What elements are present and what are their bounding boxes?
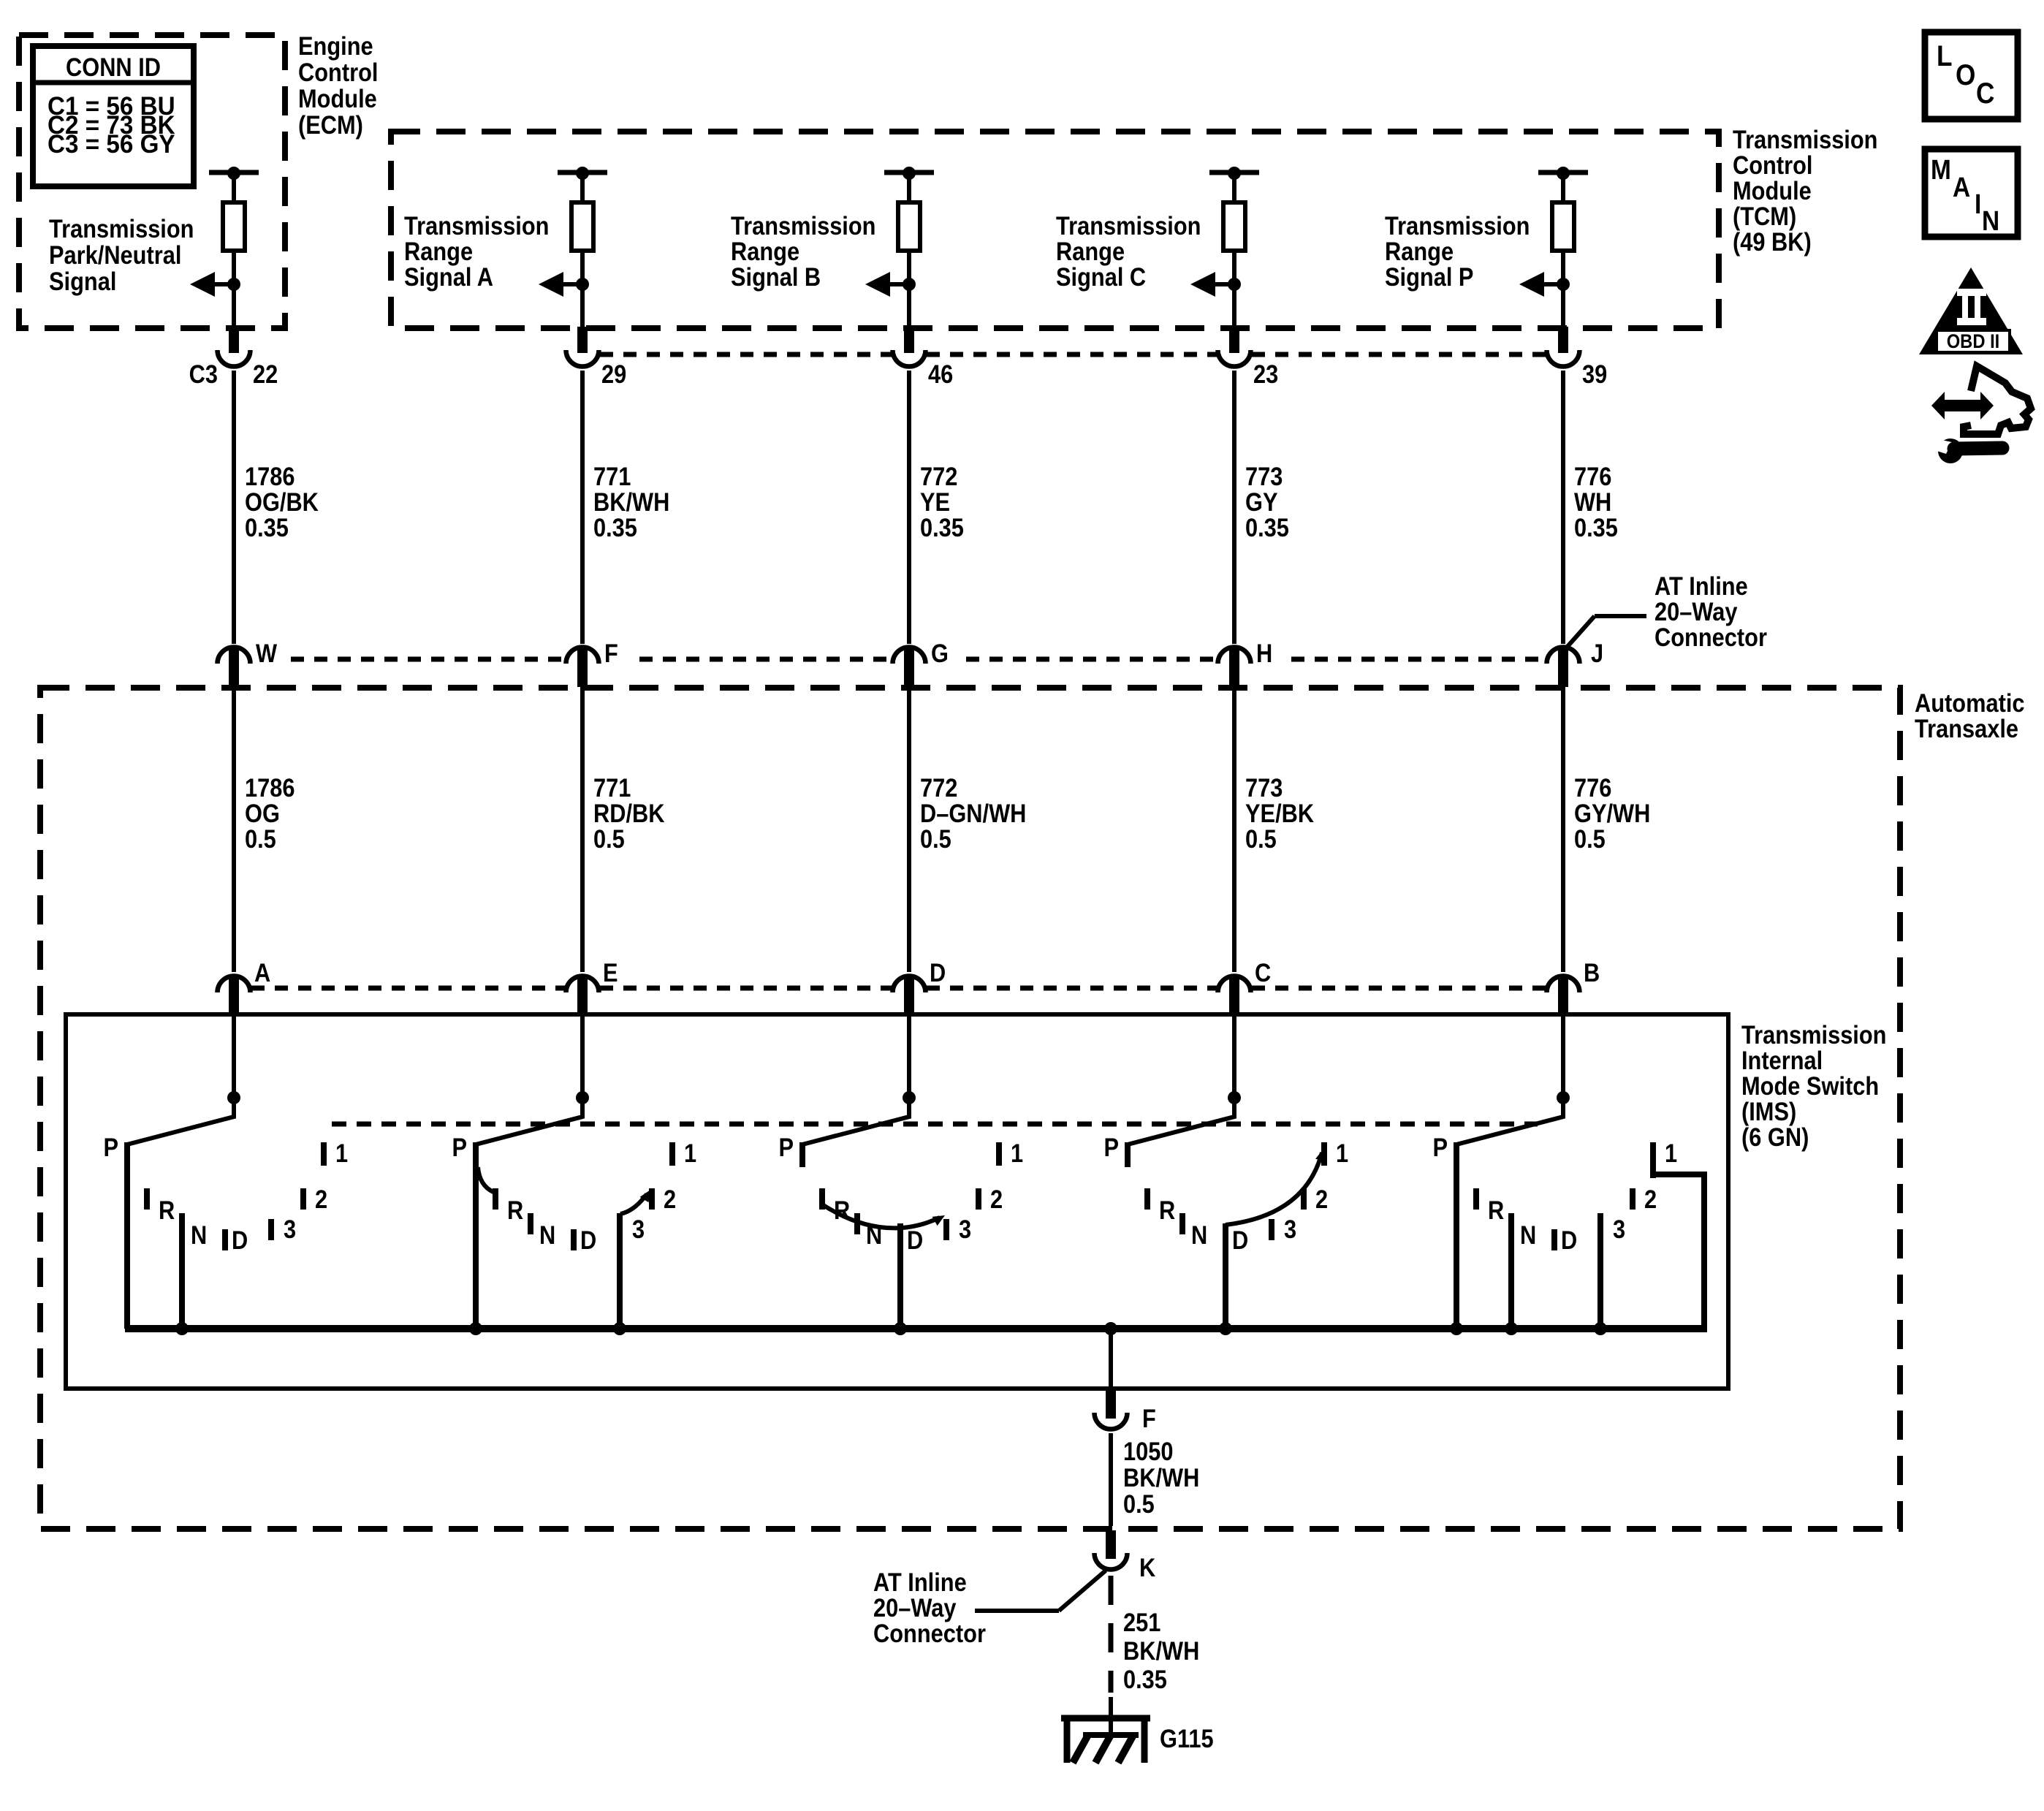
svg-text:AT Inline: AT Inline <box>873 1568 967 1596</box>
switch S4 contact labels <box>1103 1133 1348 1254</box>
wire <box>1232 687 1236 972</box>
wire <box>580 251 585 284</box>
signal arrow column 3 <box>865 272 916 297</box>
module box TCM (dashed) <box>391 132 1719 328</box>
svg-text:20–Way: 20–Way <box>873 1593 957 1622</box>
signal arrow column 4 <box>1190 272 1241 297</box>
svg-text:0.5: 0.5 <box>1245 824 1277 853</box>
switch node S3 <box>903 1091 916 1104</box>
bus junction <box>894 1322 907 1335</box>
voltage feed bar column 2 <box>558 167 607 202</box>
IMS label <box>1741 1020 1886 1151</box>
svg-text:3: 3 <box>284 1215 296 1243</box>
AT Inline 20-Way Connector callout (top) <box>1565 572 1767 651</box>
connector pin 39 (module side) <box>1558 327 1568 353</box>
svg-text:Mode Switch: Mode Switch <box>1741 1071 1879 1100</box>
svg-text:776: 776 <box>1574 462 1611 490</box>
svg-text:772: 772 <box>920 462 957 490</box>
resistor R4 <box>1223 202 1245 251</box>
svg-text:Range: Range <box>404 237 473 265</box>
svg-text:BK/WH: BK/WH <box>1123 1636 1199 1665</box>
Automatic Transaxle box (dashed) <box>40 688 1900 1529</box>
harness dash row2 <box>291 657 1546 662</box>
svg-text:D–GN/WH: D–GN/WH <box>920 799 1026 827</box>
bus junction <box>1594 1322 1607 1335</box>
harness dash row3 <box>251 986 1546 991</box>
svg-text:D: D <box>232 1226 248 1254</box>
signal arrow column 5 <box>1519 272 1570 297</box>
wire <box>580 371 585 644</box>
svg-text:H: H <box>1256 639 1272 667</box>
svg-text:Transmission: Transmission <box>1385 211 1530 240</box>
IMS box <box>66 1014 1728 1389</box>
svg-text:Automatic: Automatic <box>1915 688 2025 717</box>
svg-text:Transmission: Transmission <box>1741 1020 1886 1049</box>
connector K <box>1095 1553 1128 1570</box>
svg-text:D: D <box>1232 1226 1248 1254</box>
CONN ID table <box>33 46 194 186</box>
svg-text:J: J <box>1591 639 1603 667</box>
svg-text:A: A <box>254 958 270 987</box>
wire <box>1561 687 1565 972</box>
svg-text:0.5: 0.5 <box>245 824 276 853</box>
range signal label column 5 <box>1385 211 1530 291</box>
switch node S4 <box>1228 1091 1241 1104</box>
inline connector terminal B <box>1547 976 1580 1017</box>
svg-text:R: R <box>159 1196 175 1224</box>
svg-text:773: 773 <box>1245 462 1283 490</box>
svg-text:D: D <box>930 958 946 987</box>
svg-text:1050: 1050 <box>1123 1437 1173 1465</box>
svg-text:A: A <box>1953 172 1970 202</box>
svg-text:D: D <box>907 1226 923 1254</box>
svg-text:0.35: 0.35 <box>1574 513 1618 542</box>
S2 closed-range arc P-R <box>478 1167 493 1192</box>
connector pin 23 (module side) <box>1229 327 1239 353</box>
svg-text:Internal: Internal <box>1741 1046 1823 1074</box>
inline connector terminal H <box>1218 648 1251 688</box>
svg-text:3: 3 <box>1613 1215 1625 1243</box>
wire <box>1561 1016 1565 1116</box>
svg-text:46: 46 <box>928 360 953 388</box>
connector pin 22 (module side) <box>229 327 239 353</box>
svg-text:Connector: Connector <box>873 1619 986 1647</box>
wire <box>232 371 236 644</box>
svg-text:Signal C: Signal C <box>1056 262 1146 291</box>
bus junction <box>1104 1322 1117 1335</box>
svg-text:Range: Range <box>1385 237 1454 265</box>
switch node S2 <box>576 1091 589 1104</box>
svg-text:GY: GY <box>1245 487 1278 516</box>
resistor R2 <box>571 202 593 251</box>
svg-text:Transaxle: Transaxle <box>1915 714 2018 743</box>
svg-text:Control: Control <box>1733 151 1812 179</box>
wire <box>580 687 585 972</box>
svg-text:773: 773 <box>1245 773 1283 802</box>
svg-text:C3: C3 <box>189 360 218 388</box>
switch S3 contacts <box>799 1142 1002 1329</box>
svg-text:BK/WH: BK/WH <box>1123 1463 1199 1492</box>
resistor R5 <box>1552 202 1574 251</box>
svg-text:0.5: 0.5 <box>920 824 951 853</box>
wire bus to F <box>1109 1329 1113 1390</box>
svg-text:Module: Module <box>298 84 377 113</box>
svg-text:D: D <box>580 1226 596 1254</box>
wire label 772 D–GN/WH 0.5 <box>920 773 1026 853</box>
svg-text:OG: OG <box>245 799 280 827</box>
switch S4 contacts <box>1125 1142 1327 1329</box>
switch S3 contact labels <box>778 1133 1023 1254</box>
svg-text:2: 2 <box>1644 1185 1657 1213</box>
svg-text:0.5: 0.5 <box>593 824 625 853</box>
wire label 773 GY 0.35 <box>1245 462 1289 542</box>
wire label 776 WH 0.35 <box>1574 462 1618 542</box>
svg-text:I: I <box>1975 189 1981 219</box>
module box ECM (dashed) <box>19 35 285 328</box>
svg-text:23: 23 <box>1253 360 1278 388</box>
wire <box>907 371 911 644</box>
svg-text:0.35: 0.35 <box>1123 1665 1167 1693</box>
svg-text:1: 1 <box>1336 1139 1348 1167</box>
S4 closed-range arc D-1 <box>1226 1149 1326 1225</box>
svg-text:G: G <box>931 639 949 667</box>
switch S5 contact labels <box>1432 1133 1677 1254</box>
svg-text:N: N <box>1191 1220 1207 1249</box>
svg-text:C: C <box>1255 958 1271 987</box>
inline connector terminal C <box>1218 976 1251 1017</box>
svg-text:3: 3 <box>632 1215 645 1243</box>
svg-text:Transmission: Transmission <box>404 211 549 240</box>
legend wrench icon <box>1932 438 2002 463</box>
signal arrow column 2 <box>539 272 589 297</box>
range signal label column 2 <box>404 211 549 291</box>
svg-text:O: O <box>1956 58 1975 91</box>
svg-text:Module: Module <box>1733 176 1812 205</box>
svg-text:Control: Control <box>298 58 378 86</box>
svg-text:1786: 1786 <box>245 462 295 490</box>
resistor R3 <box>898 202 920 251</box>
resistor R1 <box>223 202 245 251</box>
wire <box>232 687 236 972</box>
svg-text:29: 29 <box>601 360 626 388</box>
svg-text:N: N <box>191 1220 207 1249</box>
svg-text:N: N <box>1982 205 1999 236</box>
svg-text:2: 2 <box>1315 1185 1328 1213</box>
bus junction <box>1219 1322 1232 1335</box>
svg-text:R: R <box>507 1196 523 1224</box>
wire <box>1561 284 1565 328</box>
wire (dashed) <box>1109 1576 1114 1693</box>
svg-text:F: F <box>1142 1404 1156 1432</box>
svg-text:1786: 1786 <box>245 773 295 802</box>
svg-text:1: 1 <box>1665 1139 1677 1167</box>
inline connector terminal G <box>893 648 926 688</box>
svg-text:Connector: Connector <box>1654 623 1767 651</box>
svg-text:1: 1 <box>1011 1139 1023 1167</box>
svg-text:0.35: 0.35 <box>920 513 964 542</box>
svg-text:E: E <box>603 958 618 987</box>
svg-text:Range: Range <box>1056 237 1125 265</box>
wire label 772 YE 0.35 <box>920 462 964 542</box>
switch S2 contacts <box>473 1142 675 1329</box>
wire label 1786 OG 0.5 <box>245 773 295 853</box>
connector pin F <box>1106 1389 1116 1419</box>
legend MAIN icon <box>1925 149 2018 237</box>
legend LOC icon <box>1925 32 2018 119</box>
svg-text:22: 22 <box>253 360 278 388</box>
S5 contact 1 wire <box>1653 1172 1704 1332</box>
svg-text:0.35: 0.35 <box>593 513 637 542</box>
range signal label column 3 <box>731 211 875 291</box>
switch S2 contact labels <box>452 1133 696 1254</box>
bus junction <box>469 1322 482 1335</box>
svg-text:AT Inline: AT Inline <box>1654 572 1748 600</box>
svg-text:GY/WH: GY/WH <box>1574 799 1650 827</box>
TCM label <box>1733 125 1877 256</box>
svg-text:D: D <box>1561 1226 1577 1254</box>
svg-text:0.35: 0.35 <box>1245 513 1289 542</box>
wire <box>1232 1016 1236 1116</box>
svg-text:N: N <box>539 1220 555 1249</box>
bus junction <box>175 1322 189 1335</box>
svg-text:772: 772 <box>920 773 957 802</box>
wire <box>1232 251 1236 284</box>
svg-text:(ECM): (ECM) <box>298 110 363 139</box>
svg-text:N: N <box>1520 1220 1536 1249</box>
wire <box>580 284 585 328</box>
svg-text:P: P <box>452 1133 467 1161</box>
voltage feed bar column 3 <box>884 167 934 202</box>
svg-text:1: 1 <box>335 1139 348 1167</box>
svg-text:2: 2 <box>315 1185 327 1213</box>
switch S1 contacts <box>124 1142 327 1329</box>
svg-text:2: 2 <box>990 1185 1003 1213</box>
inline connector terminal F <box>566 648 599 688</box>
svg-text:P: P <box>1432 1133 1448 1161</box>
svg-text:776: 776 <box>1574 773 1611 802</box>
switch S1 contact labels <box>103 1133 348 1254</box>
wire label 771 RD/BK 0.5 <box>593 773 665 853</box>
svg-text:(49 BK): (49 BK) <box>1733 227 1812 256</box>
voltage feed bar column 5 <box>1538 167 1588 202</box>
wire <box>907 284 911 328</box>
bus junction <box>1505 1322 1518 1335</box>
svg-text:0.35: 0.35 <box>245 513 289 542</box>
harness dash row1 <box>600 352 1546 357</box>
svg-text:Signal B: Signal B <box>731 262 821 291</box>
svg-text:Transmission: Transmission <box>49 214 194 243</box>
wire <box>907 1016 911 1116</box>
svg-text:771: 771 <box>593 773 631 802</box>
wire <box>1561 251 1565 284</box>
svg-text:Signal P: Signal P <box>1385 262 1473 291</box>
S3 closed-range arc R-3 <box>822 1204 945 1228</box>
switch node S1 <box>227 1091 240 1104</box>
wire <box>232 1016 236 1116</box>
switch S4 wiper arm <box>1128 1098 1234 1144</box>
svg-text:L: L <box>1937 39 1953 72</box>
wire stem to ground <box>1109 1697 1113 1736</box>
switch S5 contacts <box>1454 1142 1656 1329</box>
range signal label column 4 <box>1056 211 1201 291</box>
wire <box>907 251 911 284</box>
legend drivetrain icon <box>1931 366 2031 434</box>
svg-text:RD/BK: RD/BK <box>593 799 665 827</box>
inline connector terminal D <box>893 976 926 1017</box>
Automatic Transaxle label <box>1915 688 2025 743</box>
connector C-row1 col1 <box>218 350 251 367</box>
wire <box>1109 1433 1113 1526</box>
wire <box>232 284 236 328</box>
svg-text:CONN ID: CONN ID <box>66 53 161 81</box>
svg-text:W: W <box>256 639 278 667</box>
wire <box>1232 371 1236 644</box>
wire <box>1561 371 1565 644</box>
svg-text:Park/Neutral: Park/Neutral <box>49 240 181 269</box>
inline connector terminal J <box>1547 648 1580 688</box>
inline connector terminal W <box>218 648 251 688</box>
connector C-row1 col5 <box>1547 350 1580 367</box>
inline connector terminal E <box>566 976 599 1017</box>
connector C-row1 col2 <box>566 350 599 367</box>
wire <box>1232 284 1236 328</box>
switch S1 wiper arm <box>127 1098 234 1144</box>
svg-text:(TCM): (TCM) <box>1733 202 1796 230</box>
svg-text:251: 251 <box>1123 1608 1160 1636</box>
svg-text:OBD II: OBD II <box>1947 331 2000 353</box>
connector pin 46 (module side) <box>904 327 914 353</box>
bus junction <box>613 1322 626 1335</box>
AT Inline 20-Way Connector callout (bottom) <box>873 1568 1106 1647</box>
wire label 771 BK/WH 0.35 <box>593 462 669 542</box>
svg-text:39: 39 <box>1582 360 1607 388</box>
svg-text:YE: YE <box>920 487 950 516</box>
svg-text:2: 2 <box>664 1185 676 1213</box>
svg-text:P: P <box>778 1133 794 1161</box>
svg-text:BK/WH: BK/WH <box>593 487 669 516</box>
svg-text:P: P <box>1103 1133 1119 1161</box>
wire label 1050 BK/WH 0.5 <box>1123 1437 1199 1518</box>
wire label 776 GY/WH 0.5 <box>1574 773 1650 853</box>
wiper linkage dash <box>332 1122 1538 1127</box>
svg-text:Transmission: Transmission <box>731 211 875 240</box>
wire label 773 YE/BK 0.5 <box>1245 773 1314 853</box>
connector C-row1 col4 <box>1218 350 1251 367</box>
svg-text:M: M <box>1931 154 1951 185</box>
svg-text:WH: WH <box>1574 487 1611 516</box>
S2 closed-range arc 3-2 <box>620 1190 650 1214</box>
voltage feed bar column 4 <box>1209 167 1259 202</box>
svg-text:Transmission: Transmission <box>1056 211 1201 240</box>
wire <box>232 251 236 284</box>
ECM Park/Neutral label <box>49 214 194 295</box>
bus junction <box>1450 1322 1463 1335</box>
ECM label <box>298 31 378 139</box>
svg-text:(IMS): (IMS) <box>1741 1097 1796 1125</box>
ground G115 <box>1061 1715 1150 1763</box>
connector F <box>1095 1413 1128 1430</box>
switch S5 wiper arm <box>1456 1098 1563 1144</box>
connector C-row1 col3 <box>893 350 926 367</box>
svg-text:B: B <box>1584 958 1600 987</box>
svg-text:Engine: Engine <box>298 31 373 60</box>
svg-text:0.5: 0.5 <box>1123 1489 1155 1518</box>
svg-text:771: 771 <box>593 462 631 490</box>
switch node S5 <box>1557 1091 1570 1104</box>
svg-text:(6 GN): (6 GN) <box>1741 1123 1809 1151</box>
switch S3 wiper arm <box>802 1098 909 1144</box>
svg-text:20–Way: 20–Way <box>1654 597 1738 626</box>
svg-text:1: 1 <box>684 1139 696 1167</box>
wire <box>580 1016 585 1116</box>
svg-text:3: 3 <box>959 1215 971 1243</box>
voltage feed bar column 1 <box>209 167 259 202</box>
svg-text:K: K <box>1139 1553 1155 1582</box>
svg-text:R: R <box>1488 1196 1504 1224</box>
switch S2 wiper arm <box>476 1098 582 1144</box>
svg-text:YE/BK: YE/BK <box>1245 799 1314 827</box>
svg-text:Signal: Signal <box>49 267 116 295</box>
svg-text:3: 3 <box>1284 1215 1296 1243</box>
svg-text:Range: Range <box>731 237 799 265</box>
svg-text:0.5: 0.5 <box>1574 824 1606 853</box>
connector pin 29 (module side) <box>577 327 588 353</box>
svg-text:OG/BK: OG/BK <box>245 487 319 516</box>
svg-text:Transmission: Transmission <box>1733 125 1877 153</box>
svg-text:C3 = 56 GY: C3 = 56 GY <box>48 130 175 159</box>
wire <box>907 687 911 972</box>
svg-text:R: R <box>1159 1196 1175 1224</box>
svg-text:G115: G115 <box>1160 1724 1214 1753</box>
wire label 1786 OG/BK 0.35 <box>245 462 319 542</box>
svg-text:C: C <box>1976 77 1994 110</box>
connector pin K <box>1106 1530 1116 1559</box>
legend OBD II triangle <box>1919 267 2023 354</box>
IMS common bus <box>125 1325 1707 1332</box>
svg-text:P: P <box>103 1133 118 1161</box>
wire label 251 BK/WH 0.35 <box>1123 1608 1199 1693</box>
signal arrow column 1 <box>190 272 240 297</box>
svg-text:Signal A: Signal A <box>404 262 493 291</box>
inline connector terminal A <box>218 976 251 1017</box>
svg-text:F: F <box>604 639 618 667</box>
